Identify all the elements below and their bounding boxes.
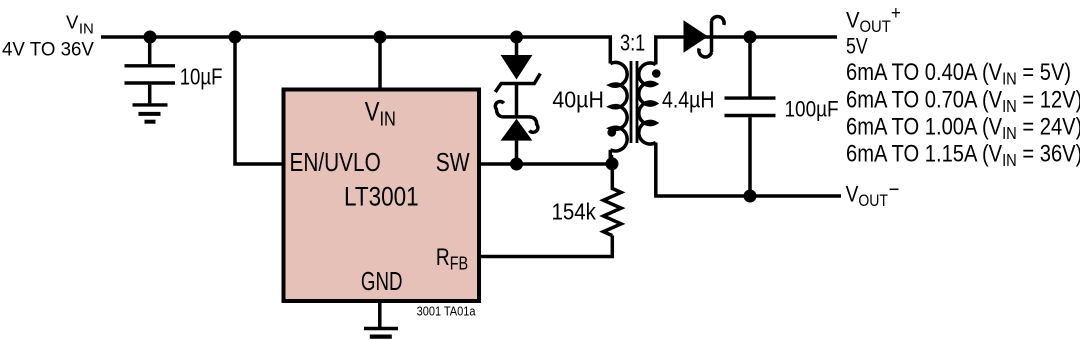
- svg-text:154k: 154k: [552, 198, 596, 224]
- svg-text:5V: 5V: [846, 35, 868, 59]
- svg-text:LT3001: LT3001: [344, 183, 419, 212]
- svg-text:6mA TO 1.00A (VIN = 24V): 6mA TO 1.00A (VIN = 24V): [846, 113, 1080, 143]
- svg-text:100µF: 100µF: [785, 97, 839, 122]
- svg-text:6mA TO 0.70A (VIN = 12V): 6mA TO 0.70A (VIN = 12V): [846, 86, 1080, 116]
- svg-text:10µF: 10µF: [180, 65, 223, 90]
- svg-text:VIN: VIN: [66, 11, 94, 37]
- svg-text:40µH: 40µH: [552, 87, 604, 113]
- svg-text:6mA TO 1.15A (VIN = 36V): 6mA TO 1.15A (VIN = 36V): [846, 140, 1080, 170]
- svg-text:VOUT+: VOUT+: [846, 2, 901, 36]
- svg-text:VOUT−: VOUT−: [846, 178, 900, 210]
- svg-text:6mA TO 0.40A (VIN = 5V): 6mA TO 0.40A (VIN = 5V): [846, 58, 1071, 88]
- svg-text:EN/UVLO: EN/UVLO: [290, 148, 381, 177]
- svg-text:3:1: 3:1: [620, 31, 645, 57]
- svg-text:4.4µH: 4.4µH: [662, 87, 715, 113]
- svg-text:GND: GND: [361, 266, 403, 296]
- svg-text:SW: SW: [436, 149, 471, 178]
- svg-text:4V TO 36V: 4V TO 36V: [2, 39, 94, 60]
- svg-text:3001 TA01a: 3001 TA01a: [417, 304, 476, 319]
